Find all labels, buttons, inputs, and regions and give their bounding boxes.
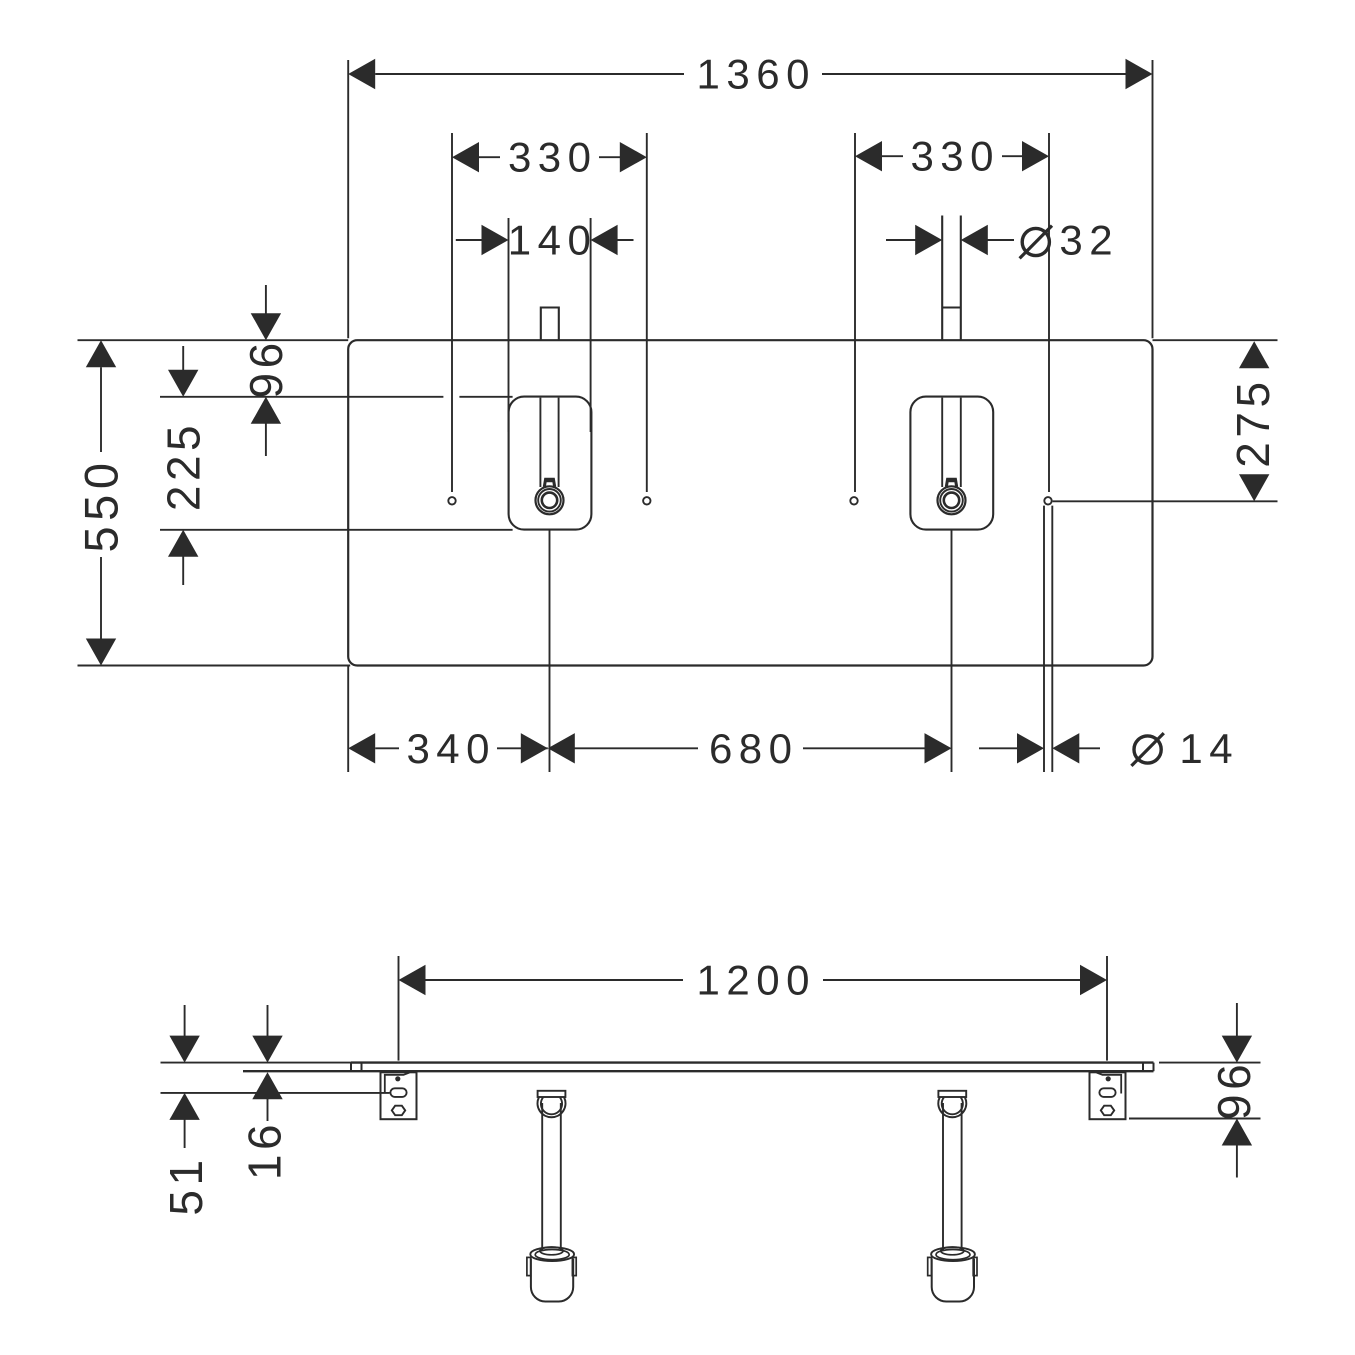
svg-text:330: 330 <box>910 133 1000 180</box>
right cutout slot right line <box>960 398 962 487</box>
340 right arrow / bowtie left half <box>521 733 548 763</box>
330L left arrow <box>452 142 479 172</box>
1200 left extension <box>398 956 400 1061</box>
51 bottom arrow pointing up <box>169 1093 199 1120</box>
1360 dim line right part <box>822 73 1126 75</box>
trap cup body <box>531 1259 573 1302</box>
275 bottom arrow pointing down <box>1239 474 1269 501</box>
330L right arrow <box>620 142 647 172</box>
svg-text:96: 96 <box>240 338 292 398</box>
O32 left stem <box>886 239 916 241</box>
trap cup right tab <box>973 1257 977 1275</box>
svg-text:16: 16 <box>239 1120 291 1180</box>
1360 right extension line <box>1152 60 1154 338</box>
bracket inner plate detail <box>385 1073 410 1094</box>
140 right arrow pointing left <box>591 225 618 255</box>
fixing hole at x=452.0 <box>448 497 455 504</box>
helper line at cutout bottom (225) <box>160 529 513 531</box>
140 left stem <box>456 239 482 241</box>
1200 right extension <box>1106 956 1108 1061</box>
16 bottom stem <box>267 1098 269 1122</box>
330R line right stub <box>1002 155 1023 157</box>
board right joint line <box>1142 1063 1144 1072</box>
O32 right stem <box>987 239 1014 241</box>
340 left arrow <box>348 733 375 763</box>
1360 right arrow <box>1126 59 1153 89</box>
fixing hole at x=646.8 <box>643 497 650 504</box>
225 bottom stem <box>182 555 184 585</box>
550 bottom arrow pointing down <box>86 639 116 666</box>
O14 left stem <box>979 747 1017 749</box>
left drain waste fitting <box>536 486 564 514</box>
O14 hole right edge extension <box>1051 506 1053 772</box>
console plan view: outer top rectangle <box>348 340 1152 665</box>
helper line through right fixing hole (275) <box>1053 500 1278 502</box>
275 top arrow pointing up <box>1239 341 1269 368</box>
16 top stem <box>267 1005 269 1037</box>
fixing hole at x=854.0 <box>850 497 857 504</box>
96 front bottom arrow pointing up <box>1222 1119 1252 1146</box>
right basin cutout <box>910 397 993 530</box>
svg-text:32: 32 <box>1059 217 1119 264</box>
bracket oblong mounting hole <box>390 1088 406 1097</box>
1200 right arrow <box>1080 965 1107 995</box>
helper line C at bracket slot level (51) <box>161 1092 390 1094</box>
1200 left arrow <box>399 965 426 995</box>
drain trap (siphon) at x=952.3 <box>938 1091 966 1097</box>
svg-text:275: 275 <box>1227 377 1279 467</box>
svg-text:340: 340 <box>406 725 496 772</box>
trap cup left tab <box>527 1257 531 1275</box>
140 left arrow pointing right <box>482 225 509 255</box>
340 line right part <box>497 747 548 749</box>
trap cup left tab <box>928 1257 932 1275</box>
front view: console board bottom surface (extends left as 16-helper) <box>243 1070 1154 1072</box>
board right end cap <box>1153 1063 1155 1072</box>
left edge extension to bottom dims <box>347 666 349 773</box>
helper line 96 from top edge level, left part <box>160 396 443 398</box>
O32 right arrow pointing left <box>961 225 988 255</box>
330L line right stub <box>599 156 620 158</box>
svg-text:225: 225 <box>158 421 210 511</box>
680 line left part <box>575 747 699 749</box>
1200 dim line left part <box>426 979 684 981</box>
helper line 96 from top edge level, right part <box>459 396 512 398</box>
svg-text:14: 14 <box>1179 725 1239 772</box>
96 top stem <box>265 285 267 315</box>
330R line left stub <box>882 155 903 157</box>
bracket oblong mounting hole <box>1099 1088 1115 1097</box>
O14 right stem <box>1079 747 1100 749</box>
140 right extension <box>590 218 592 432</box>
O14 left arrow pointing right <box>1017 733 1044 763</box>
dim symbol O of O32 <box>1022 228 1049 255</box>
left faucet marker above top edge <box>541 308 559 341</box>
right cutout slot left line <box>941 398 943 487</box>
51 top stem <box>184 1005 186 1037</box>
left cutout slot left line <box>539 398 541 487</box>
helper line at console top edge, extending left <box>78 339 349 341</box>
96 top arrow pointing down <box>251 313 281 340</box>
right drain overflow tab (filled) <box>945 478 958 487</box>
board left end cap <box>350 1063 352 1072</box>
right faucet supply pipe left line <box>941 216 943 341</box>
1360 left extension line <box>347 60 349 338</box>
helper line A at top surface, left <box>161 1062 352 1064</box>
wall bracket outline at x=380.5 <box>381 1072 417 1119</box>
680 left arrow / bowtie right half <box>548 733 575 763</box>
fixing hole at x=1048.0 <box>1044 497 1051 504</box>
140 right stem <box>617 239 634 241</box>
O14 right arrow pointing left <box>1052 733 1079 763</box>
330R left extension <box>854 133 856 492</box>
O32 left arrow pointing right <box>915 225 942 255</box>
dim symbol O of O14 <box>1134 736 1161 763</box>
right faucet pipe tick <box>942 307 961 309</box>
96 front top stem <box>1236 1003 1238 1036</box>
left cutout slot right line <box>558 398 560 487</box>
225 top arrow pointing down <box>168 370 198 397</box>
1360 dim line left part <box>375 73 684 75</box>
680 right arrow <box>925 733 952 763</box>
680 line right part <box>803 747 925 749</box>
svg-text:1360: 1360 <box>697 51 816 98</box>
550 dim line lower part <box>100 557 102 639</box>
wall bracket outline at x=1089.5 <box>1090 1072 1126 1119</box>
helper line D at top surface, right <box>1159 1062 1261 1064</box>
svg-text:330: 330 <box>508 134 598 181</box>
16 top arrow pointing down <box>252 1036 282 1063</box>
330R right extension <box>1048 133 1050 492</box>
96 front bottom stem <box>1236 1145 1238 1178</box>
trap cup body <box>932 1259 974 1302</box>
225 bottom arrow pointing up <box>168 530 198 557</box>
330R right arrow <box>1022 141 1049 171</box>
trap cup right tab <box>572 1257 576 1275</box>
helper line at console top edge, extending right <box>1153 339 1278 341</box>
svg-text:550: 550 <box>75 458 128 553</box>
330L line left stub <box>479 156 500 158</box>
right faucet supply pipe right line <box>960 216 962 341</box>
16 bottom arrow pointing up <box>252 1072 282 1099</box>
96 front top arrow pointing down <box>1222 1036 1252 1063</box>
svg-text:1200: 1200 <box>697 957 816 1004</box>
bracket hexagonal screw <box>392 1106 405 1116</box>
drain trap (siphon) at x=551.5 <box>538 1091 566 1097</box>
helper line at console bottom edge, extending left <box>78 665 351 667</box>
340 line left part <box>375 747 399 749</box>
96 bottom stem <box>265 422 267 456</box>
140 left extension <box>508 218 510 432</box>
svg-text:140: 140 <box>508 217 598 264</box>
225 top stem <box>182 346 184 371</box>
51 bottom stem <box>184 1119 186 1148</box>
51 top arrow pointing down <box>169 1036 199 1063</box>
svg-text:680: 680 <box>709 725 799 772</box>
helper line E at bracket bottom, right (96) <box>1129 1118 1261 1120</box>
1360 left arrow <box>348 59 375 89</box>
96 bottom arrow pointing up <box>251 397 281 424</box>
O14 hole left edge extension <box>1043 506 1045 772</box>
330R left arrow <box>855 141 882 171</box>
1200 dim line right part <box>823 979 1080 981</box>
bracket hexagonal screw <box>1101 1106 1114 1116</box>
board left joint line <box>361 1063 363 1072</box>
extension from left drain to bottom dims <box>549 530 551 772</box>
left drain overflow tab (filled) <box>543 478 556 487</box>
right drain waste fitting <box>938 486 966 514</box>
svg-text:51: 51 <box>160 1155 212 1215</box>
extension from right drain to bottom dims <box>951 530 953 772</box>
550 dim line upper part <box>100 367 102 452</box>
550 top arrow pointing up <box>86 340 116 367</box>
bracket inner plate detail <box>1097 1073 1122 1094</box>
left basin cutout <box>509 397 592 530</box>
330L right extension <box>646 133 648 492</box>
330L left extension <box>451 133 453 492</box>
front view: console board top surface <box>351 1061 1154 1063</box>
svg-text:96: 96 <box>1208 1060 1260 1120</box>
